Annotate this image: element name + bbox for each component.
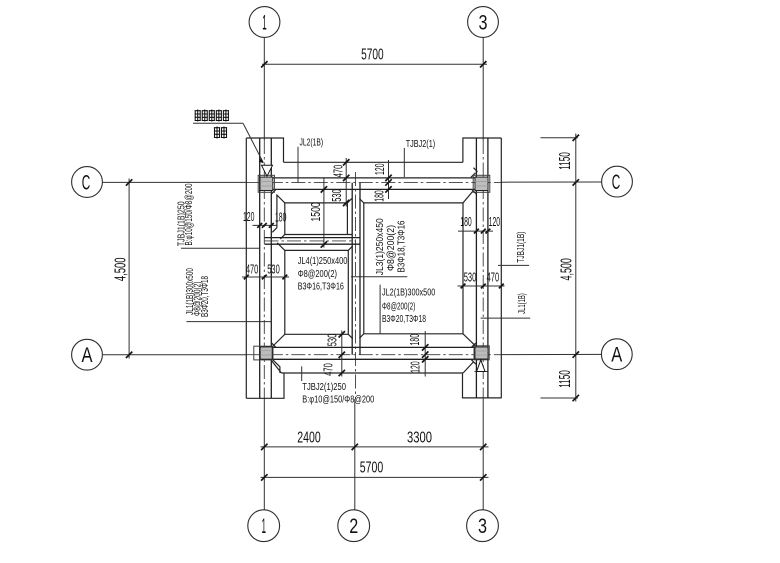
dimension line top 5700 bbox=[261, 47, 487, 68]
svg-text:4,500: 4,500 bbox=[113, 257, 130, 281]
wall axis2 right face bbox=[359, 183, 361, 355]
column A1 bbox=[254, 346, 273, 360]
pad bump below A1 column bbox=[273, 360, 280, 373]
wall axis1 left face bbox=[259, 138, 261, 398]
dimension left wall 120/180 bbox=[243, 210, 287, 228]
dimension bottom wall 530/470 (vertical) bbox=[322, 331, 346, 377]
label settlement note (Chinese) with leader arrow bbox=[193, 110, 264, 164]
axis line 3 (vertical) bbox=[482, 38, 484, 510]
svg-text:B3Φ20,T3Φ18: B3Φ20,T3Φ18 bbox=[200, 276, 211, 317]
beam haunch chamfer at A3 bottom bbox=[471, 359, 476, 364]
svg-text:1500: 1500 bbox=[309, 202, 323, 221]
axis line C (horizontal) bbox=[103, 181, 602, 183]
svg-text:B:φ10@150/Φ8@200: B:φ10@150/Φ8@200 bbox=[302, 395, 374, 406]
label TJBJ2(1) top with leader bbox=[404, 139, 435, 177]
column A3 bbox=[474, 346, 489, 360]
svg-text:A: A bbox=[82, 344, 93, 367]
label beam JL4 room text bbox=[298, 256, 348, 292]
label TJBJ2 bottom text with leader bbox=[302, 366, 375, 405]
svg-text:120: 120 bbox=[243, 210, 255, 224]
beam haunch chamfer at A3 top bbox=[471, 344, 475, 348]
svg-text:3: 3 bbox=[479, 12, 488, 35]
foundation outer edge right (axis 3 strip) bbox=[500, 138, 502, 398]
foundation pad inner edge top-left below pad bbox=[276, 195, 278, 228]
svg-text:470: 470 bbox=[331, 165, 345, 178]
wall axisC top face (beam JL2 top) bbox=[271, 177, 476, 179]
svg-text:B3Φ20,T3Φ18: B3Φ20,T3Φ18 bbox=[382, 314, 426, 325]
beam JL4 centerline bbox=[265, 240, 356, 242]
beam haunch chamfer at C3 outer bbox=[474, 168, 478, 172]
foundation pad top-left corner bbox=[246, 138, 283, 162]
axis line A (horizontal) bbox=[103, 353, 602, 355]
settlement marker triangle at column A3 bbox=[475, 360, 488, 372]
wall axis3 right face bbox=[487, 138, 489, 398]
svg-text:JL2(1B): JL2(1B) bbox=[300, 138, 324, 149]
beam JL4 bottom face bbox=[265, 243, 360, 245]
wall corner chamfer C1 bbox=[271, 189, 276, 194]
foundation pad top-right corner bbox=[463, 138, 501, 162]
wall axisA top face bbox=[271, 346, 476, 348]
svg-text:180: 180 bbox=[460, 215, 472, 229]
foundation pad bottom-left corner bbox=[246, 373, 284, 398]
svg-text:1150: 1150 bbox=[557, 370, 574, 388]
beam JL4 top face bbox=[265, 237, 360, 239]
dimension top wall 470/530 (vertical) bbox=[330, 158, 349, 207]
foundation inner edge room upper-left bbox=[276, 195, 352, 239]
wall corner chamfer C3 bbox=[472, 189, 477, 194]
svg-text:470: 470 bbox=[487, 271, 500, 285]
label JL1 left rotated with leader bbox=[185, 268, 272, 322]
label JL2(1B) top with leader bbox=[298, 138, 323, 184]
svg-text:1150: 1150 bbox=[557, 152, 574, 170]
svg-text:120: 120 bbox=[409, 361, 423, 373]
wall axisC bottom face (beam JL2 bottom) bbox=[271, 188, 476, 190]
svg-text:JL4(1)250x400: JL4(1)250x400 bbox=[298, 256, 348, 267]
axis circle A left bbox=[72, 339, 103, 370]
axis circle 3 bottom bbox=[467, 510, 499, 542]
dimension line left 4500 bbox=[113, 179, 133, 359]
dimension right wall 180/120 bbox=[458, 215, 500, 234]
axis circle C left bbox=[72, 167, 103, 198]
label beam JL3 rotated text with leader bbox=[351, 218, 407, 277]
axis circle 2 bottom bbox=[338, 510, 370, 542]
svg-text:Φ8@200(2): Φ8@200(2) bbox=[298, 269, 337, 280]
svg-text:180: 180 bbox=[275, 211, 287, 225]
svg-text:C: C bbox=[82, 172, 91, 195]
foundation inner edge room lower-left bbox=[273, 243, 353, 346]
axis circle 1 top bbox=[249, 7, 280, 38]
svg-text:180: 180 bbox=[408, 334, 422, 346]
axis line 1 (vertical) bbox=[263, 38, 265, 510]
svg-text:A: A bbox=[611, 344, 622, 367]
svg-text:5700: 5700 bbox=[360, 460, 383, 477]
foundation inner edge room right bbox=[359, 191, 475, 346]
svg-text:TJBJ1(1B): TJBJ1(1B) bbox=[516, 232, 527, 263]
svg-text:5700: 5700 bbox=[361, 47, 384, 64]
svg-text:470: 470 bbox=[322, 363, 336, 376]
foundation pad inner chamfer bbox=[272, 228, 277, 233]
label JL1(1B) right rotated with leader bbox=[481, 293, 531, 318]
foundation pad bottom-right corner bbox=[463, 373, 502, 398]
label TJBJ1(1B) right rotated with leader bbox=[498, 232, 529, 266]
label beam JL2 room text with leader bbox=[380, 285, 436, 334]
dimension left wall 470/530 bbox=[242, 263, 289, 280]
svg-text:B:φ10@150/Φ8@200: B:φ10@150/Φ8@200 bbox=[184, 183, 195, 245]
svg-text:2: 2 bbox=[349, 515, 358, 538]
wall axis2 left face bbox=[351, 183, 353, 355]
svg-text:Φ8@200(2): Φ8@200(2) bbox=[386, 225, 397, 271]
wall axis3 left face bbox=[475, 138, 477, 398]
svg-text:120: 120 bbox=[373, 163, 387, 175]
svg-text:C: C bbox=[612, 171, 621, 194]
column C1 bbox=[258, 175, 274, 192]
svg-text:2400: 2400 bbox=[297, 430, 320, 447]
axis circle A right bbox=[601, 339, 632, 370]
svg-text:1: 1 bbox=[262, 12, 267, 35]
svg-text:180: 180 bbox=[372, 190, 386, 202]
wall corner chamfer A1 bbox=[271, 343, 276, 348]
svg-text:530: 530 bbox=[330, 189, 344, 202]
wall corner chamfer A3 bbox=[472, 343, 477, 348]
foundation bottom edge chamfer left bbox=[272, 361, 282, 373]
dimension line bottom 2400/3300 bbox=[261, 430, 489, 451]
wall axis1 right face bbox=[270, 138, 272, 398]
dimension right wall 530/470 bbox=[458, 271, 505, 289]
svg-text:B3Φ16,T3Φ16: B3Φ16,T3Φ16 bbox=[298, 281, 345, 292]
svg-text:TJBJ2(1): TJBJ2(1) bbox=[406, 139, 436, 150]
svg-text:530: 530 bbox=[326, 334, 340, 347]
svg-text:TJBJ2(1)250: TJBJ2(1)250 bbox=[302, 382, 346, 393]
svg-text:3300: 3300 bbox=[407, 430, 432, 447]
label TJBJ1 left rotated with leader bbox=[176, 183, 259, 248]
svg-text:470: 470 bbox=[246, 263, 259, 277]
foundation bottom edge chamfer right bbox=[463, 362, 473, 373]
axis circle C right bbox=[602, 166, 633, 197]
settlement marker triangle at column C1 bbox=[262, 165, 273, 176]
svg-text:1: 1 bbox=[261, 515, 266, 538]
beam haunch chamfer at C3 top bbox=[471, 173, 476, 178]
svg-text:3: 3 bbox=[478, 515, 487, 538]
dimension top wall 120/180 (vertical) bbox=[372, 160, 391, 202]
dimension 1500 (vertical) bbox=[309, 179, 327, 248]
svg-text:530: 530 bbox=[267, 263, 280, 277]
axis circle 3 top bbox=[468, 7, 499, 38]
axis circle 1 bottom bbox=[248, 510, 280, 542]
foundation outer edge top (C strip middle) bbox=[284, 161, 463, 163]
svg-text:JL3(1)250x450: JL3(1)250x450 bbox=[375, 218, 386, 275]
svg-text:JL1(1B): JL1(1B) bbox=[517, 293, 528, 314]
svg-text:4,500: 4,500 bbox=[558, 258, 575, 280]
wall axisA bottom face bbox=[271, 358, 476, 360]
foundation outer edge left (axis 1 strip) bbox=[245, 138, 247, 398]
dimension bottom wall 180/120 (vertical) bbox=[408, 331, 428, 377]
axis line 2 (vertical) bbox=[354, 172, 357, 510]
dimension line right 1150/4500/1150 bbox=[541, 134, 580, 402]
foundation outer edge bottom (A strip middle) bbox=[281, 372, 463, 374]
svg-text:JL2(1B)300x500: JL2(1B)300x500 bbox=[382, 287, 436, 298]
svg-text:530: 530 bbox=[464, 271, 477, 285]
dimension line bottom 5700 bbox=[261, 460, 489, 481]
svg-text:Φ8@200(2): Φ8@200(2) bbox=[382, 302, 415, 313]
svg-text:120: 120 bbox=[489, 215, 501, 229]
svg-text:B3Φ18,T3Φ16: B3Φ18,T3Φ16 bbox=[396, 220, 407, 272]
column C3 bbox=[473, 175, 490, 192]
